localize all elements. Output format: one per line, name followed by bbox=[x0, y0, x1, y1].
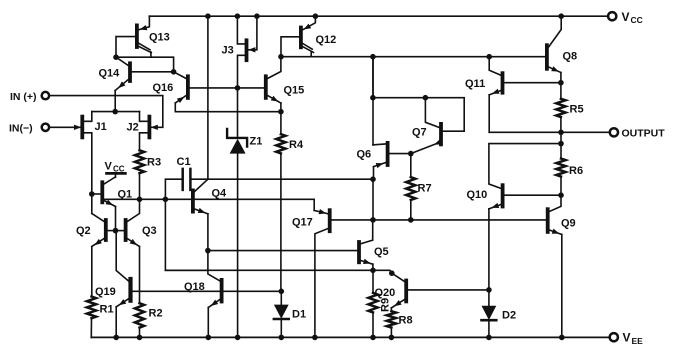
wire IN(-) to J1 gate bbox=[49, 126, 81, 128]
svg-text:Q16: Q16 bbox=[153, 82, 174, 94]
svg-text:J3: J3 bbox=[222, 45, 234, 57]
node Q5 emitter / R9 top bbox=[370, 268, 376, 274]
svg-text:J1: J1 bbox=[95, 121, 107, 133]
node Q19 emitter at VEE rail bbox=[113, 335, 119, 341]
node rail tap A bbox=[205, 13, 211, 19]
resistor R3 bbox=[135, 150, 144, 173]
resistor R8 bbox=[387, 311, 396, 327]
node Q8 emitter / R5 bbox=[558, 80, 564, 86]
svg-text:OUTPUT: OUTPUT bbox=[622, 128, 666, 140]
node Q13 base junction bbox=[113, 54, 119, 60]
svg-text:Q5: Q5 bbox=[374, 246, 389, 258]
node R3 bottom / Q3 collector bbox=[137, 197, 143, 203]
node Q18 emitter at VEE rail bbox=[206, 335, 212, 341]
node J1 source / Q1 base bbox=[89, 191, 95, 197]
svg-text:Q2: Q2 bbox=[76, 225, 91, 237]
wire Q18-Q19 base bus bbox=[133, 290, 282, 292]
node Q7 tap on bus bbox=[423, 95, 429, 101]
output terminal bbox=[610, 128, 618, 136]
node Q12 emitter at rail bbox=[313, 13, 319, 19]
svg-text:C1: C1 bbox=[177, 156, 191, 168]
capacitor C1 bbox=[181, 169, 184, 190]
node Q4 emitter / Q18 collector bbox=[205, 248, 211, 254]
svg-text:R6: R6 bbox=[569, 165, 583, 177]
svg-text:CC: CC bbox=[631, 15, 643, 25]
wire Q6 emitter drop bbox=[372, 179, 374, 220]
transistor Q12 bbox=[299, 28, 303, 48]
transistor Q15 bbox=[264, 76, 268, 98]
diode D2 bbox=[488, 290, 490, 306]
svg-text:IN (+): IN (+) bbox=[10, 91, 37, 103]
jfet J3 bbox=[245, 40, 249, 60]
svg-text:Q20: Q20 bbox=[375, 287, 396, 299]
node Q20 base / D2 anode bbox=[486, 287, 492, 293]
wire C1 leg to lower bus bbox=[165, 199, 208, 270]
wire Q6 riser bbox=[372, 57, 374, 98]
svg-text:V: V bbox=[622, 10, 630, 24]
svg-text:R4: R4 bbox=[289, 139, 304, 151]
node C1 left leg bbox=[163, 197, 169, 203]
transistor Q11 bbox=[501, 73, 505, 93]
transistor Q16 bbox=[186, 76, 190, 98]
svg-text:Q10: Q10 bbox=[467, 189, 488, 201]
svg-text:IN(−): IN(−) bbox=[9, 123, 33, 135]
input terminal IN(+) bbox=[42, 92, 49, 99]
svg-text:Q14: Q14 bbox=[99, 68, 121, 80]
transistor Q8 bbox=[545, 45, 549, 69]
wire zener cathode riser bbox=[237, 88, 239, 137]
node R8 bottom at VEE rail bbox=[389, 335, 395, 341]
wire compensation bus bbox=[208, 178, 373, 180]
node Q8 collector at rail bbox=[558, 13, 564, 19]
transistor Q3 bbox=[124, 220, 128, 240]
svg-text:R8: R8 bbox=[399, 315, 413, 327]
svg-text:J2: J2 bbox=[127, 121, 139, 133]
zener Z1 bbox=[227, 129, 247, 147]
transistor Q20 bbox=[404, 281, 408, 302]
svg-text:Q6: Q6 bbox=[357, 149, 372, 161]
resistor R2 bbox=[135, 303, 144, 327]
node R9 bottom at VEE rail bbox=[370, 335, 376, 341]
node Q6 collector mid bbox=[370, 95, 376, 101]
node Q1 emitter / Q2 Q3 bases bbox=[113, 228, 119, 234]
node D2 cathode at VEE rail bbox=[486, 335, 492, 341]
transistor Q5 bbox=[357, 242, 361, 262]
svg-text:R7: R7 bbox=[418, 183, 432, 195]
wire Q16/Q15 emitter bus bbox=[175, 111, 281, 113]
resistor R1 bbox=[91, 296, 93, 298]
svg-text:EE: EE bbox=[632, 336, 644, 346]
transistor Q19 bbox=[128, 279, 132, 301]
svg-text:Q15: Q15 bbox=[284, 85, 305, 97]
node Q5 collector on bus bbox=[370, 217, 376, 223]
svg-text:V: V bbox=[623, 331, 631, 345]
svg-text:Q13: Q13 bbox=[149, 32, 170, 44]
wire Q18 collector drop bbox=[208, 251, 220, 281]
jfet J2 bbox=[147, 117, 151, 138]
svg-text:Q17: Q17 bbox=[292, 217, 313, 229]
svg-text:D2: D2 bbox=[502, 310, 516, 322]
node Z1 anode at VEE rail bbox=[235, 335, 241, 341]
wire R5-R6 link bbox=[560, 132, 562, 143]
resistor R4 bbox=[280, 112, 282, 135]
transistor Q6 bbox=[386, 143, 390, 165]
transistor Q2 bbox=[104, 220, 108, 240]
wire Q1 base bus bbox=[104, 199, 314, 210]
svg-text:R2: R2 bbox=[149, 308, 163, 320]
transistor Q1 bbox=[100, 182, 104, 202]
node J3 drain at rail bbox=[235, 13, 241, 19]
transistor Q18 bbox=[220, 280, 224, 302]
svg-text:Q7: Q7 bbox=[412, 127, 427, 139]
svg-text:R1: R1 bbox=[100, 304, 114, 316]
svg-text:Q19: Q19 bbox=[95, 286, 116, 298]
wire Q17-Q9 base bus bbox=[331, 219, 546, 221]
node Q20 base tap bbox=[389, 270, 395, 276]
node zener ref on base bus bbox=[235, 85, 241, 91]
wire Q13/Q14 node bbox=[116, 57, 174, 72]
transistor Q17 bbox=[328, 210, 332, 231]
resistor R6 bbox=[560, 144, 562, 159]
transistor Q14 bbox=[128, 63, 132, 81]
node D1 anode / R4 bottom bbox=[279, 289, 285, 295]
svg-text:R9: R9 bbox=[380, 298, 392, 312]
transistor Q9 bbox=[546, 209, 550, 232]
wire J1-J2 drain bus bbox=[92, 111, 140, 113]
wire VEE bottom rail bbox=[91, 336, 609, 338]
transistor Q4 bbox=[191, 190, 195, 211]
resistor R7 bbox=[410, 154, 412, 178]
node R6 top bbox=[558, 141, 564, 147]
svg-text:D1: D1 bbox=[292, 309, 306, 321]
transistor Q10 bbox=[501, 185, 505, 206]
node Q17 collector at VEE rail bbox=[312, 335, 318, 341]
wire Q4-Q5 link bbox=[208, 250, 357, 252]
node Q10 base / R6 bottom bbox=[558, 192, 564, 198]
svg-text:Q9: Q9 bbox=[561, 218, 576, 230]
node J3 gate at rail bbox=[254, 13, 260, 19]
node J1/J2 drains bbox=[112, 109, 118, 115]
power tap VCC symbol bbox=[107, 172, 126, 175]
transistor Q7 bbox=[439, 124, 443, 144]
wire IN(+) to J2 gate bbox=[49, 96, 163, 128]
node Q11 branch on bus bbox=[486, 54, 492, 60]
svg-text:Q11: Q11 bbox=[465, 78, 485, 90]
diode D1 bbox=[280, 291, 282, 304]
svg-text:V: V bbox=[105, 160, 113, 172]
svg-text:Z1: Z1 bbox=[250, 136, 263, 148]
node R7 bottom on bus bbox=[408, 217, 414, 223]
wire VCC top rail bbox=[149, 15, 608, 17]
svg-text:R5: R5 bbox=[570, 104, 584, 116]
node Q6 branch on bus bbox=[370, 54, 376, 60]
wire output node bbox=[489, 131, 610, 133]
node Q7 emitter / R7 top / Q6 base bbox=[408, 151, 414, 157]
wire rail drop x208 bbox=[207, 16, 209, 179]
node R4 top bbox=[278, 109, 284, 115]
power terminal VEE bbox=[610, 333, 618, 341]
node D1 cathode at VEE rail bbox=[279, 335, 285, 341]
input terminal IN(-) bbox=[42, 124, 49, 131]
wire Q10 collector loop bbox=[489, 144, 561, 189]
wire Q5 emitter bus bbox=[165, 270, 391, 273]
svg-text:Q4: Q4 bbox=[212, 188, 228, 200]
wire Q16-Q15 base bus bbox=[190, 87, 265, 89]
jfet J1 bbox=[80, 117, 84, 138]
node compensation wire end bbox=[370, 176, 376, 182]
node Q14 collector junction bbox=[171, 69, 177, 75]
node Q9 emitter at VEE rail bbox=[559, 335, 565, 341]
power terminal VCC bbox=[608, 12, 616, 20]
svg-text:R3: R3 bbox=[147, 157, 161, 169]
resistor R5 bbox=[560, 83, 562, 99]
node output junction bbox=[558, 130, 564, 136]
svg-text:Q3: Q3 bbox=[142, 225, 157, 237]
transistor Q13 bbox=[135, 25, 139, 47]
node Q15 collector / Q12 base bbox=[278, 54, 284, 60]
svg-text:Q8: Q8 bbox=[563, 51, 578, 63]
node R2 bottom at VEE rail bbox=[137, 335, 143, 341]
svg-text:CC: CC bbox=[113, 164, 125, 173]
resistor R9 bbox=[372, 270, 374, 293]
wire Q2 collector riser bbox=[91, 194, 93, 214]
wire Q6-Q7 top bus bbox=[373, 97, 426, 99]
svg-text:Q12: Q12 bbox=[316, 34, 337, 46]
wire Q12 collector bus bbox=[281, 56, 545, 58]
